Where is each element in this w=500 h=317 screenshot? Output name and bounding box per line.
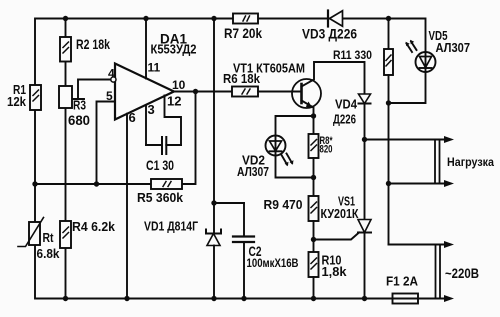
capacitor C2 xyxy=(243,203,245,299)
fuse F1 xyxy=(393,294,419,304)
capacitor C1 xyxy=(146,144,181,146)
svg-text:R4 6.2k: R4 6.2k xyxy=(72,219,116,234)
wire pin 6 xyxy=(126,114,128,299)
svg-text:6: 6 xyxy=(129,110,136,125)
svg-text:12k: 12k xyxy=(7,94,27,109)
svg-text:R5 360k: R5 360k xyxy=(137,190,184,205)
node bottom pin6 xyxy=(124,296,129,301)
svg-text:100мкХ16В: 100мкХ16В xyxy=(247,256,299,270)
svg-text:R7 20k: R7 20k xyxy=(224,25,262,41)
wire collector xyxy=(302,62,365,94)
svg-text:6.8k: 6.8k xyxy=(37,246,61,261)
wire pin 12 xyxy=(165,95,182,145)
svg-text:4: 4 xyxy=(108,67,115,81)
svg-text:C1 30: C1 30 xyxy=(146,157,174,173)
resistor R5 xyxy=(151,179,182,189)
svg-text:К553УД2: К553УД2 xyxy=(151,42,197,57)
wire base xyxy=(258,91,302,93)
wire VS1 gate xyxy=(314,233,360,240)
svg-text:R11 330: R11 330 xyxy=(333,48,372,62)
wire pin 11 xyxy=(145,19,147,79)
wire VD4 to VS1 xyxy=(364,104,366,220)
zener VD1 xyxy=(207,234,220,246)
node output xyxy=(193,89,198,94)
connector load bars xyxy=(435,140,440,184)
node feedback pin5 xyxy=(94,181,99,186)
node top VD1 xyxy=(211,16,216,21)
svg-text:~220В: ~220В xyxy=(445,265,479,281)
wire top rail xyxy=(35,19,425,185)
wire pin 3 xyxy=(145,106,147,146)
node VD2 cathode xyxy=(311,175,316,180)
op-amp DA1 xyxy=(115,64,174,120)
resistor R9 xyxy=(309,196,319,221)
svg-text:680: 680 xyxy=(68,112,90,128)
LED VD5 xyxy=(389,19,426,104)
node VD4 bottom xyxy=(362,137,367,142)
resistor R8 xyxy=(309,134,319,158)
wire pin 5 xyxy=(97,102,116,185)
svg-text:VD3 Д226: VD3 Д226 xyxy=(302,26,357,42)
node bottom VD1 xyxy=(211,296,216,301)
svg-text:КУ201К: КУ201К xyxy=(321,206,359,221)
svg-text:VD4: VD4 xyxy=(335,97,358,112)
node top R2 xyxy=(63,16,68,21)
svg-text:АЛ307: АЛ307 xyxy=(436,40,471,55)
node bottom R10 xyxy=(311,296,316,301)
svg-text:Д226: Д226 xyxy=(333,112,356,127)
wire R2/R3/R4 column xyxy=(65,19,67,299)
wire mains top xyxy=(389,244,445,246)
wire op-amp output xyxy=(173,91,232,93)
node bottom VS1 xyxy=(362,296,367,301)
resistor R10 xyxy=(309,252,319,277)
svg-text:VT1 КТ605АМ: VT1 КТ605АМ xyxy=(233,62,305,76)
wire VD1 to C2 xyxy=(214,202,244,204)
node bottom R4 xyxy=(63,296,68,301)
svg-text:R3: R3 xyxy=(73,98,86,113)
node top pin11 xyxy=(143,16,148,21)
resistor R7 xyxy=(233,14,258,24)
svg-text:VD1 Д814Г: VD1 Д814Г xyxy=(144,219,198,234)
transistor VT1 xyxy=(292,79,321,108)
connector load bottom arrow xyxy=(389,183,445,185)
node top R11 xyxy=(386,16,391,21)
svg-text:11: 11 xyxy=(148,61,161,75)
resistor R3 (trimmer) xyxy=(59,86,72,108)
svg-text:F1 2A: F1 2A xyxy=(386,274,419,289)
wire R3 wiper to pin 4 xyxy=(73,80,111,100)
svg-text:820: 820 xyxy=(320,144,333,156)
LED VD2 xyxy=(276,116,314,178)
resistor R1 xyxy=(30,85,41,110)
thermistor Rt xyxy=(29,222,40,245)
node emitter xyxy=(311,113,316,118)
node mains top xyxy=(386,181,391,186)
svg-text:5: 5 xyxy=(106,89,113,103)
svg-text:R9 470: R9 470 xyxy=(264,197,303,212)
svg-text:12: 12 xyxy=(167,94,181,109)
resistor R4 xyxy=(60,221,71,248)
resistor R2 xyxy=(60,37,71,62)
wire bottom rail xyxy=(35,184,393,299)
svg-text:1,8k: 1,8k xyxy=(322,264,348,279)
wire feedback xyxy=(35,183,151,185)
connector load top arrow xyxy=(365,139,445,141)
wire emitter xyxy=(302,101,314,135)
diode VD4 xyxy=(359,94,371,104)
node feedback left xyxy=(32,181,37,186)
svg-text:Нагрузка: Нагрузка xyxy=(447,155,494,169)
resistor R11 xyxy=(388,19,390,50)
svg-text:3: 3 xyxy=(148,102,155,117)
node VD1 C2 xyxy=(211,200,216,205)
svg-text:10: 10 xyxy=(172,78,186,92)
thyristor VS1 xyxy=(358,220,371,233)
svg-text:R2 18k: R2 18k xyxy=(76,36,110,52)
diode VD3 xyxy=(330,11,343,26)
node gate xyxy=(311,237,316,242)
svg-text:АЛ307: АЛ307 xyxy=(237,164,269,179)
wire VD1 branch xyxy=(213,19,215,234)
node bottom C2 xyxy=(241,296,246,301)
svg-text:Rt: Rt xyxy=(43,230,55,245)
node R11 bottom xyxy=(386,100,391,105)
connector mains bars xyxy=(436,245,441,299)
resistor R6 xyxy=(232,87,258,97)
